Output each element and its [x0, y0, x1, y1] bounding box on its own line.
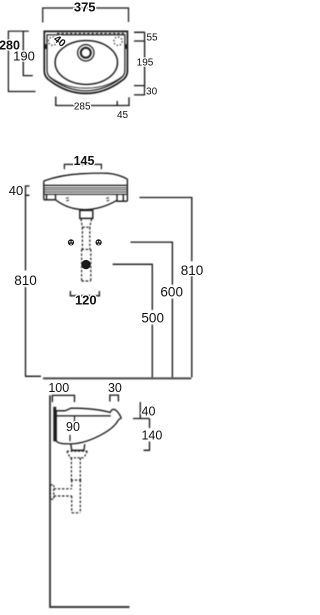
- svg-text:45: 45: [117, 110, 129, 121]
- side dashed tailpipe: [71, 458, 80, 480]
- svg-text:810: 810: [14, 273, 37, 288]
- front view right edge: [126, 179, 128, 201]
- front dashed pipe: [82, 227, 89, 249]
- screw symbols: [68, 239, 102, 269]
- front dashed trapezoid: [81, 219, 92, 227]
- plan outer outline: [44, 31, 127, 93]
- svg-text:190: 190: [13, 49, 35, 64]
- svg-text:40: 40: [9, 183, 23, 198]
- svg-text:195: 195: [137, 58, 154, 69]
- dim 140 right side: [144, 419, 150, 451]
- right edge notch: [125, 44, 127, 49]
- left edge notch: [45, 44, 47, 49]
- svg-text:55: 55: [146, 32, 158, 43]
- front view top profile: [44, 173, 128, 181]
- side back plate: [53, 407, 56, 442]
- floor line middle: [43, 377, 191, 379]
- front left foot: [44, 194, 56, 200]
- dim 190 bracket: [23, 31, 33, 75]
- side basin outline: [56, 408, 121, 444]
- dim 145 bracket: [64, 164, 101, 169]
- svg-text:90: 90: [66, 420, 80, 434]
- side bowl inner line: [56, 415, 111, 417]
- plan rim tick band: [57, 33, 124, 35]
- side wall flange: [50, 485, 53, 499]
- wall line: [49, 395, 51, 608]
- dim 375 bracket: [43, 8, 129, 23]
- front belly curve: [56, 200, 118, 210]
- plan third front band curve: [48, 76, 123, 88]
- dim 100 bracket: [52, 395, 74, 402]
- svg-text:30: 30: [108, 381, 122, 395]
- floor line bottom: [49, 606, 129, 608]
- optional tap holes dashed: [48, 37, 56, 45]
- svg-text:810: 810: [181, 263, 203, 278]
- svg-text:40: 40: [142, 405, 156, 419]
- svg-text:600: 600: [160, 285, 183, 300]
- svg-text:120: 120: [75, 292, 97, 307]
- dim 30 bracket bottom: [110, 395, 119, 401]
- fixing hole dashes left: [66, 198, 69, 201]
- left 810 line: [26, 195, 42, 376]
- plan inner rim line: [47, 35, 125, 91]
- front view left edge: [43, 181, 45, 200]
- side tee collar: [71, 480, 83, 513]
- right 810 line: [140, 198, 192, 378]
- svg-text:145: 145: [74, 154, 95, 168]
- front drain stub: [80, 210, 93, 218]
- side dashed trap flange: [67, 451, 88, 458]
- fixing hole dashes right: [106, 198, 109, 201]
- svg-text:100: 100: [48, 381, 69, 395]
- bottom dim 285/45: [56, 97, 129, 106]
- dim 120 bracket: [70, 291, 99, 296]
- side 90 leader lower: [69, 435, 71, 441]
- side 90 leader upper: [74, 416, 76, 423]
- 500 line: [113, 264, 153, 377]
- 600 line: [131, 242, 173, 377]
- front band lines: [44, 184, 128, 186]
- front right foot: [117, 194, 127, 201]
- dim 40 left bracket: [26, 186, 30, 195]
- dim 40 right side: [133, 402, 150, 419]
- svg-text:375: 375: [74, 0, 96, 14]
- svg-text:285: 285: [74, 102, 91, 113]
- front dashed collar: [82, 249, 91, 281]
- tap hole: [78, 45, 94, 61]
- side drain stub: [71, 444, 85, 450]
- dim 280 bracket: [8, 31, 35, 91]
- side arm to wall: [54, 489, 72, 496]
- black drain dot: [81, 260, 90, 269]
- svg-text:30: 30: [146, 87, 158, 98]
- right dim line 55/195/30: [134, 32, 145, 95]
- svg-text:500: 500: [141, 311, 164, 326]
- svg-text:140: 140: [141, 428, 162, 442]
- bowl outline: [55, 41, 117, 85]
